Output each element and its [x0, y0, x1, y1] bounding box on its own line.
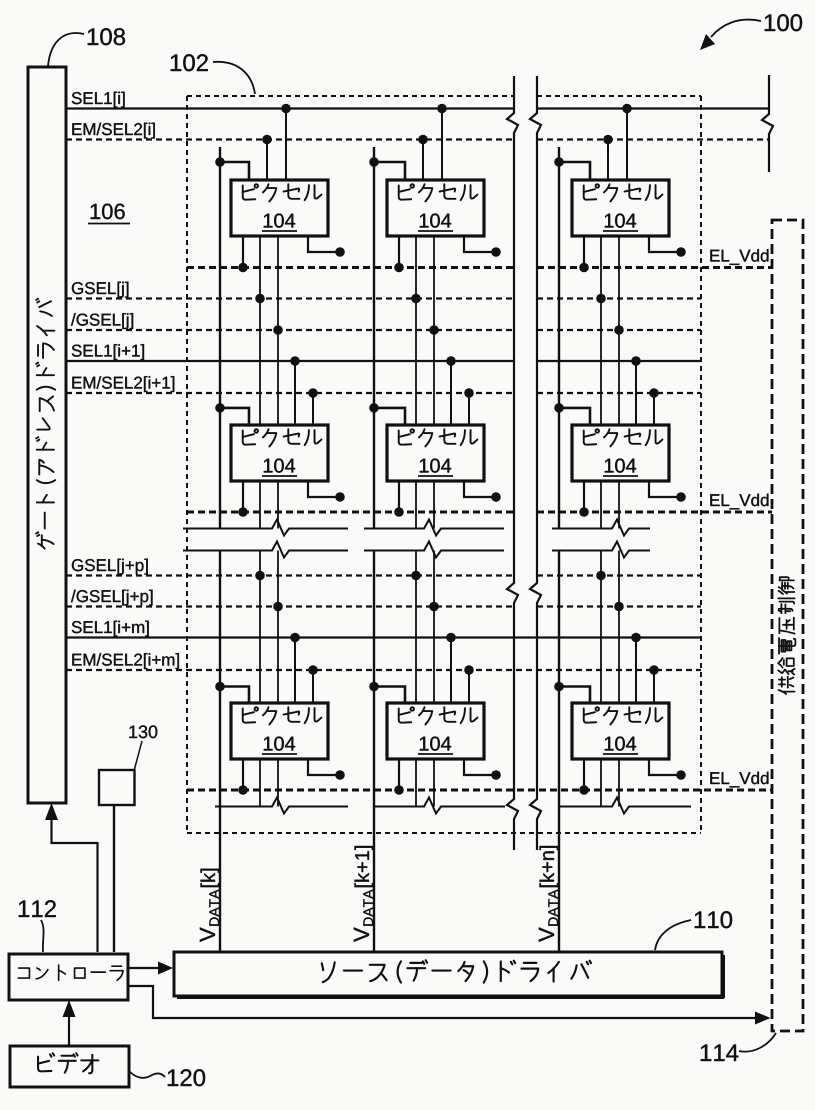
wire EL_Vdd drop from pixel P21 [238, 481, 248, 517]
array border box 102 (dashed) [187, 96, 701, 833]
pixel block P23 (104) [572, 425, 669, 481]
row omission cut line lower [183, 542, 650, 558]
wire /GSEL[j] link pixel P11 [273, 236, 283, 425]
wire EM/SEL2[i+1] row line [66, 392, 701, 394]
wire /GSEL[j+p] link to pixel P33 [614, 551, 624, 704]
wire GSEL stubs below pixel P33 [601, 759, 619, 807]
label EM/SEL2[i+m] [72, 653, 178, 669]
video box 120 [10, 1046, 129, 1087]
wire EM/SEL2[i] tap to pixel P11 [262, 135, 272, 180]
wire SEL1[i] tap to pixel P11 [281, 104, 291, 180]
wire EM/SEL2[i] tap to pixel P12 [418, 135, 428, 180]
wire SEL1[i+m] tap to pixel P31 [290, 633, 300, 703]
wire /GSEL[j+p] link to pixel P31 [273, 551, 283, 704]
wire V_DATA tap to pixel P22 [369, 403, 405, 425]
wire EL_Vdd stub of pixel P23 [649, 481, 686, 502]
wire EM/SEL2[i] tap to pixel P13 [603, 135, 613, 180]
block 130 [99, 770, 135, 805]
wire SEL1[i] tap to pixel P13 [622, 104, 632, 180]
bottom continuation cut line [215, 798, 691, 814]
wire GSEL[j] link pixel P12 [411, 236, 421, 425]
wire EL_Vdd rail 1 [187, 266, 772, 269]
wire GSEL[j+p] row line [66, 574, 701, 576]
wire V_DATA tap to pixel P21 [215, 403, 249, 425]
wire V_DATA[k+1] column line [373, 147, 375, 952]
label /GSEL[j] [71, 313, 133, 329]
label 130 [129, 725, 157, 769]
label 120 [130, 1069, 205, 1086]
wire V_DATA[k+n] column line [558, 147, 560, 952]
wire SEL1[i] tap to pixel P12 [437, 104, 447, 180]
wire block 130 to controller [113, 805, 115, 952]
label 102 [171, 54, 255, 94]
wire GSEL[j+p] link to pixel P33 [596, 551, 606, 704]
wire GSEL stubs below pixel P22 [416, 481, 434, 529]
supply voltage control box 114 (dashed) [772, 220, 803, 1031]
label V_DATA[k] [200, 869, 219, 942]
label 100 with arrow [700, 14, 802, 50]
arrow controller to source driver [128, 962, 173, 975]
wire EL_Vdd drop from pixel P33 [579, 759, 589, 795]
wire EL_Vdd drop from pixel P11 [238, 236, 248, 272]
label EM/SEL2[i+1] [72, 376, 174, 392]
wire EL_Vdd stub of pixel P32 [464, 759, 501, 780]
wire EL_Vdd stub of pixel P21 [308, 481, 345, 502]
label 108 [48, 28, 125, 66]
label 114 [701, 1033, 776, 1061]
pixel block P13 (104) [572, 180, 669, 236]
source (data) driver box 110 [174, 952, 724, 998]
wire V_DATA tap to pixel P12 [369, 157, 405, 180]
pixel block P21 (104) [231, 425, 328, 481]
wire EL_Vdd drop from pixel P31 [238, 759, 248, 795]
pixel block P22 (104) [387, 425, 484, 481]
arrow video to controller [63, 1000, 76, 1045]
wire V_DATA tap to pixel P32 [369, 682, 405, 703]
label V_DATA[k+1] [354, 846, 373, 942]
arrow controller to supply voltage control box [128, 986, 771, 1025]
wire EL_Vdd stub of pixel P33 [649, 759, 686, 780]
pixel block P11 (104) [231, 180, 328, 236]
wire GSEL[j] link pixel P11 [255, 236, 265, 425]
wire EL_Vdd stub of pixel P22 [464, 481, 501, 502]
pixel block P33 (104) [572, 703, 669, 759]
column break line left [507, 76, 518, 850]
label EM/SEL2[i] [72, 123, 154, 139]
wire EM/SEL2[i+1] tap to pixel P21 [308, 388, 318, 425]
wire GSEL[j] link pixel P13 [596, 236, 606, 425]
wire V_DATA tap to pixel P33 [554, 682, 590, 703]
wire V_DATA tap to pixel P23 [554, 403, 590, 425]
wire SEL1[i+1] row line [66, 360, 701, 362]
wire EL_Vdd stub of pixel P31 [308, 759, 345, 780]
wire V_DATA tap to pixel P11 [215, 157, 249, 180]
gate (address) driver box 108 [28, 67, 66, 803]
pixel block P32 (104) [387, 703, 484, 759]
wire /GSEL[j] link pixel P12 [429, 236, 439, 425]
wire SEL1[i+m] tap to pixel P33 [631, 633, 641, 703]
label V_DATA[k+n] [539, 846, 558, 942]
wire GSEL stubs below pixel P31 [260, 759, 278, 807]
wire EM/SEL2[i+m] tap to pixel P32 [464, 665, 474, 703]
wire EL_Vdd drop from pixel P22 [394, 481, 404, 517]
wire GSEL[j+p] link to pixel P32 [411, 551, 421, 704]
wire EM/SEL2[i+1] tap to pixel P22 [464, 388, 474, 425]
label /GSEL[j+p] [71, 590, 153, 606]
row omission cut line upper [183, 520, 650, 536]
wire EL_Vdd drop from pixel P12 [394, 236, 404, 272]
pixel block P31 (104) [231, 703, 328, 759]
label 106 [88, 204, 130, 224]
wire EL_Vdd stub of pixel P13 [649, 236, 686, 257]
pixel block P12 (104) [387, 180, 484, 236]
wire EM/SEL2[i+m] row line [66, 669, 701, 671]
label SEL1[i+m] [72, 621, 149, 637]
wire EM/SEL2[i+m] tap to pixel P33 [649, 665, 659, 703]
controller box 112 [9, 954, 128, 1000]
wire SEL1[i+1] tap to pixel P22 [446, 356, 456, 425]
wire SEL1[i+1] tap to pixel P23 [631, 356, 641, 425]
wire EM/SEL2[i] row line [66, 138, 769, 140]
wire EL_Vdd rail 2 [187, 511, 772, 514]
wire V_DATA tap to pixel P31 [215, 682, 249, 703]
label 110 [655, 911, 732, 950]
arrow controller to gate driver [45, 803, 98, 952]
wire EM/SEL2[i+1] tap to pixel P23 [649, 388, 659, 425]
label EL_Vdd 3 [710, 772, 768, 788]
wire GSEL stubs below pixel P23 [601, 481, 619, 529]
wire /GSEL[j+p] link to pixel P32 [429, 551, 439, 704]
label SEL1[i] [72, 92, 125, 108]
wire EL_Vdd drop from pixel P32 [394, 759, 404, 795]
wire GSEL[j] row line [66, 297, 701, 299]
label EL_Vdd 2 [710, 494, 768, 510]
wire SEL1[i+m] row line [66, 636, 701, 638]
wire V_DATA[k] column line [219, 147, 221, 952]
label 112 [19, 900, 56, 952]
wire /GSEL[j] link pixel P13 [614, 236, 624, 425]
wire /GSEL[j] row line [66, 329, 701, 331]
row continuation break (right edge) [762, 75, 773, 172]
wire GSEL stubs below pixel P21 [260, 481, 278, 529]
wire SEL1[i+m] tap to pixel P32 [446, 633, 456, 703]
wire GSEL stubs below pixel P32 [416, 759, 434, 807]
wire /GSEL[j+p] row line [66, 605, 701, 607]
wire EM/SEL2[i+m] tap to pixel P31 [308, 665, 318, 703]
wire SEL1[i] row line [66, 107, 769, 109]
wire SEL1[i+1] tap to pixel P21 [290, 356, 300, 425]
label SEL1[i+1] [72, 344, 144, 360]
wire EL_Vdd drop from pixel P23 [579, 481, 589, 517]
wire EL_Vdd stub of pixel P11 [308, 236, 345, 257]
label EL_Vdd 1 [710, 249, 768, 265]
wire EL_Vdd stub of pixel P12 [464, 236, 501, 257]
wire EL_Vdd drop from pixel P13 [579, 236, 589, 272]
label GSEL[j] [72, 282, 128, 298]
column break line right [530, 76, 541, 850]
wire GSEL[j+p] link to pixel P31 [255, 551, 265, 704]
label GSEL[j+p] [72, 559, 148, 575]
wire EL_Vdd rail 3 [187, 789, 772, 792]
wire V_DATA tap to pixel P13 [554, 157, 590, 180]
